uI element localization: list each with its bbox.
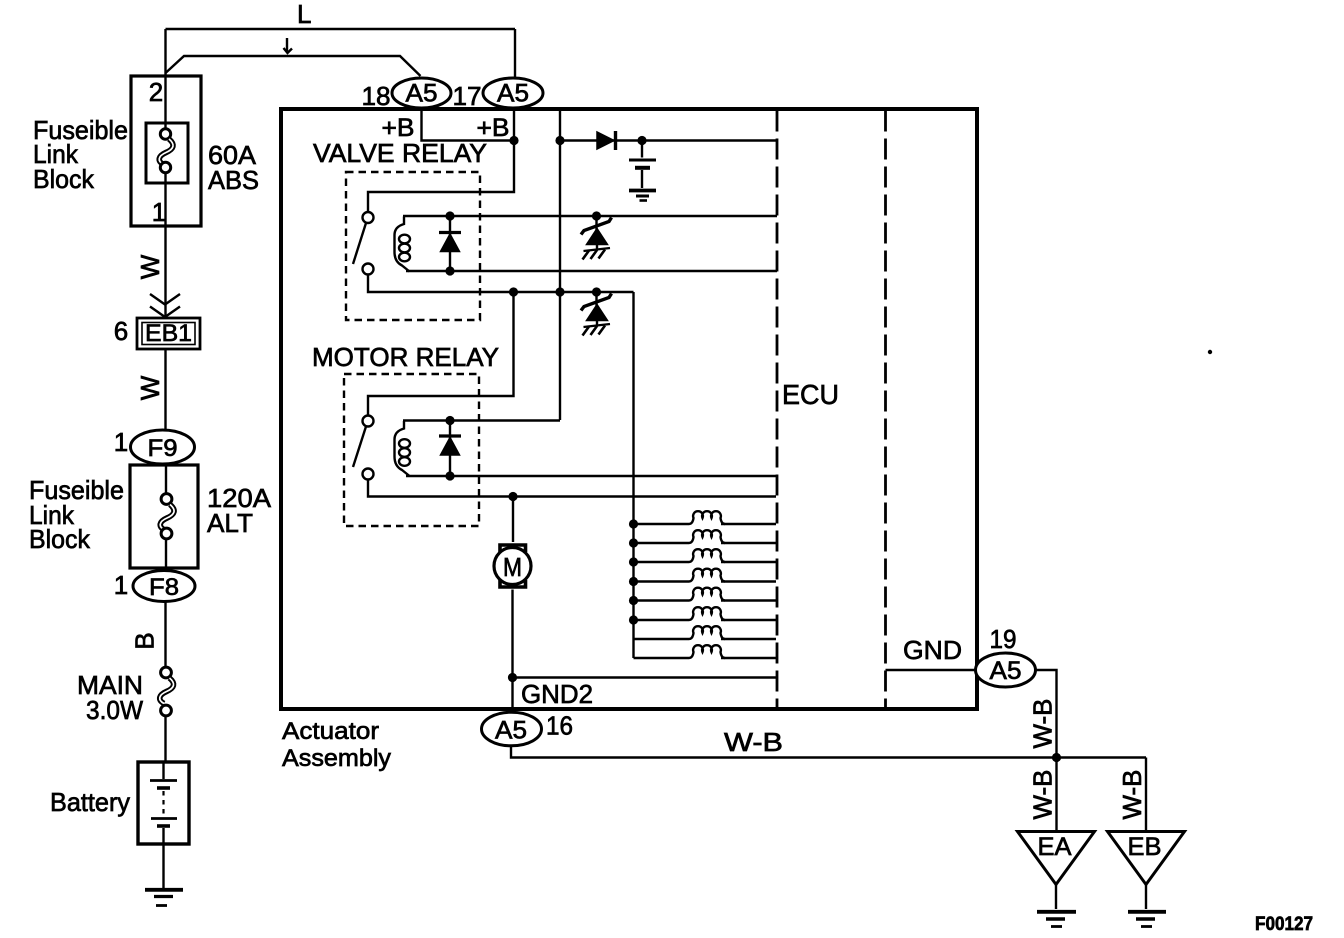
wire GND2 line <box>513 676 778 678</box>
motor relay coil <box>395 421 411 476</box>
wire W-B from connector 19 <box>1028 670 1058 758</box>
svg-text:Block: Block <box>29 524 91 554</box>
wire W from EB1 to F9 <box>135 349 166 430</box>
wire branch to connector 18 <box>166 38 421 76</box>
svg-text:ECU: ECU <box>782 379 839 410</box>
svg-text:A5: A5 <box>990 657 1022 685</box>
fuse MAIN 3.0W <box>77 667 174 725</box>
zener diode ZD2 to case ground <box>581 292 612 336</box>
svg-text:A5: A5 <box>497 80 529 108</box>
wire W from FL1 to EB1 <box>135 226 180 318</box>
svg-text:Block: Block <box>33 164 95 194</box>
solenoid valve coil row 2 <box>629 530 776 547</box>
wire W-B to EB <box>1117 758 1147 831</box>
junction x560 diode line <box>555 136 564 145</box>
svg-text:W-B: W-B <box>724 727 783 757</box>
label 120A ALT <box>207 483 272 538</box>
label Fuseible Link Block (upper) <box>33 115 128 194</box>
valve relay coil <box>395 217 411 272</box>
svg-text:W: W <box>135 375 165 400</box>
connector A5 pin 16 <box>482 711 574 746</box>
ground (battery) <box>145 890 183 906</box>
wire GND to connector 19 <box>886 669 977 671</box>
svg-text:F00127: F00127 <box>1255 914 1313 935</box>
svg-text:F9: F9 <box>148 435 178 462</box>
connector A5 pin 19 <box>976 624 1036 687</box>
wire +B pin17 into box <box>368 108 514 212</box>
svg-text:EA: EA <box>1038 833 1072 861</box>
stray mark <box>1208 350 1212 354</box>
wire B from F8 to MAIN fuse <box>130 602 166 668</box>
svg-text:6: 6 <box>114 316 128 346</box>
valve relay dashed box <box>346 172 480 320</box>
svg-text:1: 1 <box>114 570 128 600</box>
connector F9 pin 1 <box>114 427 195 464</box>
valve relay switch <box>353 212 374 275</box>
motor M1 <box>494 545 531 587</box>
connector A5 pin 18 <box>362 78 452 111</box>
ground point EB <box>1108 832 1185 927</box>
svg-text:16: 16 <box>546 711 573 741</box>
ground (capacitor C1) <box>629 191 656 201</box>
wire vertical bus x560 <box>559 111 561 421</box>
actuator assembly box <box>281 109 977 709</box>
junction valve contact line x513 <box>509 287 518 296</box>
ECU middle dashed partition <box>884 111 887 709</box>
solenoid valve coil row 6 <box>629 607 776 624</box>
svg-text:Battery: Battery <box>50 787 130 817</box>
svg-text:17: 17 <box>453 81 482 111</box>
diode D1 (valve relay) <box>439 211 461 275</box>
svg-text:19: 19 <box>990 624 1017 654</box>
wire W-B to EA <box>1028 758 1058 831</box>
zener diode ZD1 to case ground <box>581 216 612 260</box>
fusible link block 1 (60A ABS) <box>131 76 201 227</box>
wire MAIN fuse to battery <box>164 716 166 762</box>
wire valve relay contact output <box>368 275 634 293</box>
wire motor coil bottom to ECU <box>406 475 777 477</box>
svg-text:3.0W: 3.0W <box>86 695 143 725</box>
wire L from fusible link to connector 17 <box>166 0 516 78</box>
svg-text:Actuator: Actuator <box>282 718 379 745</box>
junction GND2 <box>508 673 517 682</box>
fusible link block 2 (120A ALT) <box>130 465 198 568</box>
wire battery to ground <box>162 844 164 888</box>
junction motor contact / M motor <box>508 492 517 501</box>
svg-text:GND2: GND2 <box>521 679 593 709</box>
svg-text:W: W <box>135 254 165 279</box>
junction zener ZD2 tap <box>592 287 601 296</box>
solenoid valve coil row 7 <box>634 626 777 639</box>
svg-text:1: 1 <box>114 427 128 457</box>
fusible link FL1 60A symbol <box>159 76 173 226</box>
label Actuator Assembly <box>282 718 391 772</box>
solenoid valve coil row 8 <box>634 645 777 658</box>
svg-text:W-B: W-B <box>1028 770 1058 820</box>
motor relay dashed box <box>344 374 479 526</box>
svg-text:A5: A5 <box>495 717 527 745</box>
connector F8 pin 1 <box>114 570 195 602</box>
ground point EA <box>1018 832 1095 927</box>
capacitor C1 <box>629 144 656 188</box>
svg-text:GND: GND <box>903 635 962 665</box>
svg-text:EB: EB <box>1128 833 1162 861</box>
svg-text:VALVE RELAY: VALVE RELAY <box>313 138 487 168</box>
wire +B pin18 into box <box>422 108 515 141</box>
svg-text:EB1: EB1 <box>145 320 192 347</box>
junction zener ZD1 tap <box>592 211 601 220</box>
junction capacitor tap <box>637 136 646 145</box>
svg-text:ABS: ABS <box>208 165 259 195</box>
wire feed to motor relay switch <box>368 292 514 416</box>
fusible link FL2 120A symbol <box>160 465 174 571</box>
battery <box>50 762 189 844</box>
connector A5 pin 17 <box>453 78 544 111</box>
label Fuseible Link Block (lower) <box>29 475 124 554</box>
junction W-B <box>1052 753 1061 762</box>
svg-text:A5: A5 <box>406 80 438 108</box>
wire M motor feed <box>512 497 514 543</box>
wire valve coil bottom to ECU <box>406 270 777 272</box>
solenoid valve coil row 4 <box>629 569 776 586</box>
svg-text:MOTOR RELAY: MOTOR RELAY <box>312 342 499 372</box>
svg-text:M: M <box>503 552 522 582</box>
svg-text:L: L <box>297 0 311 29</box>
wire motor relay contact output to ECU <box>368 480 776 497</box>
svg-text:1: 1 <box>152 197 166 227</box>
wire W-B bottom run <box>511 727 1146 758</box>
wire motor coil top <box>403 419 560 421</box>
wire M motor to GND2 <box>511 590 513 713</box>
svg-text:W-B: W-B <box>1028 699 1058 749</box>
svg-text:2: 2 <box>149 77 163 107</box>
diode D3 <box>597 131 616 150</box>
wire diode line to ECU <box>560 139 777 141</box>
wire valve coil top to ECU <box>403 215 777 217</box>
solenoid valve coil row 3 <box>629 549 776 566</box>
ECU left dashed partition <box>776 111 779 709</box>
solenoid valve coil row 5 <box>629 588 776 605</box>
junction valve contact line x560 <box>555 287 564 296</box>
svg-text:ALT: ALT <box>207 508 253 538</box>
svg-text:Assembly: Assembly <box>282 745 391 772</box>
svg-text:18: 18 <box>362 81 391 111</box>
connector EB1 pin 6 <box>114 316 200 349</box>
diode D2 (motor relay) <box>439 416 461 481</box>
svg-text:F8: F8 <box>149 574 179 601</box>
label 60A ABS <box>208 140 259 195</box>
motor relay switch <box>353 416 374 480</box>
junction pin17/pin18 <box>509 136 518 145</box>
svg-text:W-B: W-B <box>1117 770 1147 820</box>
svg-text:B: B <box>130 632 160 649</box>
wire solenoid return bus x633.5 <box>632 292 634 658</box>
solenoid valve coil row 1 <box>629 511 776 528</box>
